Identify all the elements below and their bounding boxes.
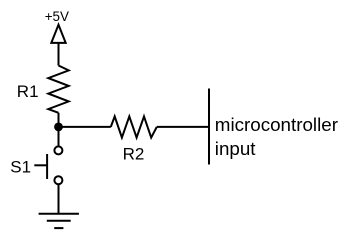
wire node to R2 xyxy=(59,126,111,128)
ground xyxy=(39,214,79,228)
svg-text:input: input xyxy=(215,138,257,159)
+5V supply symbol (open triangle) xyxy=(51,25,65,43)
resistor R2 xyxy=(111,116,157,137)
svg-text:+5V: +5V xyxy=(45,9,69,24)
wire node to switch xyxy=(58,131,60,146)
switch S1 actuator bar xyxy=(46,154,48,179)
switch S1 bottom terminal xyxy=(54,176,62,184)
wire R1 to node xyxy=(58,113,60,127)
wire supply to R1 xyxy=(58,43,60,66)
microcontroller input pin xyxy=(208,89,210,165)
svg-text:R2: R2 xyxy=(123,145,145,164)
switch S1 stub xyxy=(34,164,47,166)
svg-text:S1: S1 xyxy=(10,158,31,177)
switch S1 top terminal xyxy=(54,146,62,154)
resistor R1 xyxy=(48,66,68,113)
svg-text:R1: R1 xyxy=(17,82,39,101)
wire switch to ground xyxy=(58,184,60,214)
svg-text:microcontroller: microcontroller xyxy=(215,114,338,135)
node junction dot xyxy=(54,123,63,132)
wire R2 to microcontroller pin xyxy=(157,126,209,128)
